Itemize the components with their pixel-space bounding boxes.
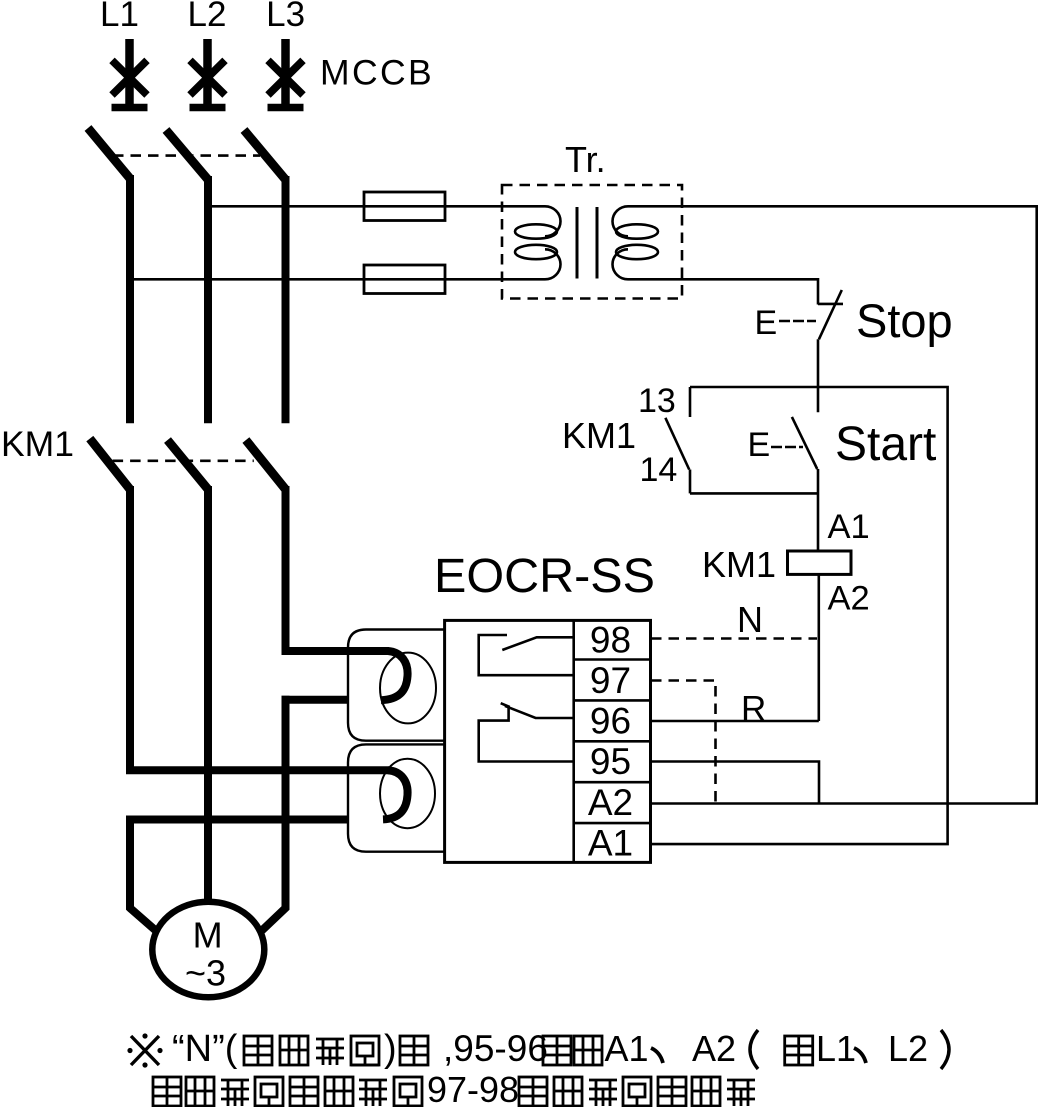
svg-text:97-98: 97-98 [427,1069,519,1107]
svg-text:KM1: KM1 [1,424,74,464]
svg-text:98: 98 [590,620,631,661]
svg-text:R: R [741,690,766,729]
svg-text:L1: L1 [816,1028,856,1069]
svg-text:“N”(: “N”( [172,1028,238,1070]
svg-text:A1: A1 [588,823,633,864]
svg-text:KM1: KM1 [562,415,636,456]
svg-text:KM1: KM1 [702,544,776,585]
svg-text:): ) [384,1028,397,1070]
svg-text:E: E [755,304,778,342]
svg-text:97: 97 [590,660,631,701]
svg-text:A1: A1 [605,1028,649,1069]
svg-text:A2: A2 [588,782,633,823]
svg-text:Start: Start [835,418,936,471]
svg-text:,95-96: ,95-96 [443,1028,548,1069]
svg-text:96: 96 [590,701,631,742]
svg-text:~3: ~3 [185,953,226,994]
svg-text:MCCB: MCCB [320,53,434,93]
svg-text:L1: L1 [100,0,139,34]
svg-text:A2: A2 [828,579,870,617]
svg-text:95: 95 [590,741,631,782]
svg-text:N: N [737,599,763,640]
svg-text:L3: L3 [266,0,305,34]
svg-text:A2: A2 [692,1028,736,1069]
svg-text:L2: L2 [888,1028,928,1069]
svg-text:L2: L2 [188,0,227,34]
svg-text:13: 13 [638,382,676,420]
svg-text:Tr.: Tr. [565,139,606,180]
svg-text:E: E [748,426,771,464]
svg-text:14: 14 [640,451,678,489]
svg-text:Stop: Stop [856,294,953,347]
svg-text:EOCR-SS: EOCR-SS [434,549,655,603]
svg-text:A1: A1 [828,508,870,546]
svg-text:M: M [193,915,223,956]
